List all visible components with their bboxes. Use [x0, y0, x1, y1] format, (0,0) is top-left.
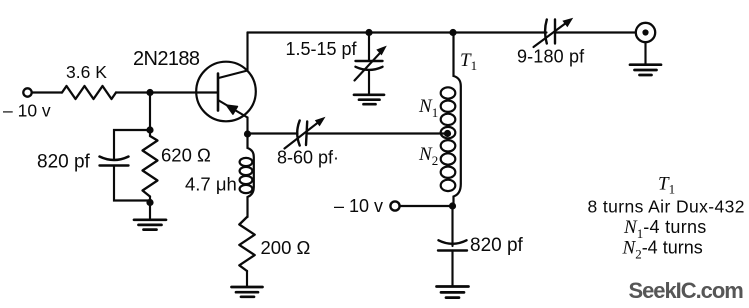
svg-text:T1: T1 — [658, 174, 675, 197]
svg-text:8-60 pf·: 8-60 pf· — [277, 148, 339, 168]
svg-text:4.7 μh: 4.7 μh — [185, 174, 237, 195]
capacitor C 8-60 pf variable — [285, 117, 326, 149]
wire C 1.5-15 to ground 3 — [368, 72, 370, 95]
wire node to transistor base — [150, 91, 217, 93]
svg-text:N2: N2 — [418, 144, 438, 168]
svg-text:820 pf: 820 pf — [470, 235, 524, 256]
node T1 bottom junction — [449, 202, 456, 209]
ground 5 (below output connector) — [630, 65, 661, 75]
wire input to R 3.6K — [32, 91, 62, 93]
node divider top junction — [146, 126, 153, 133]
transistor emitter line with arrow — [219, 101, 248, 118]
inductor L 4.7 uh — [240, 134, 254, 217]
wire node down to divider — [149, 93, 151, 131]
svg-text:3.6 K: 3.6 K — [66, 62, 107, 82]
svg-text:620 Ω: 620 Ω — [161, 145, 211, 166]
node T1 tap junction — [444, 130, 451, 137]
svg-text:200 Ω: 200 Ω — [261, 237, 311, 258]
svg-text:SeekIC.com: SeekIC.com — [629, 278, 744, 303]
wire emitter down to node — [246, 118, 248, 135]
svg-text:T1: T1 — [460, 50, 477, 73]
node emitter junction — [244, 130, 251, 137]
wire collector to top rail — [246, 33, 248, 71]
wire C 820pf to ground 4 — [451, 251, 453, 287]
node rail junction at T1 — [449, 29, 456, 36]
ground 2 (below 200 ohm) — [232, 287, 263, 297]
terminal -10v input — [23, 88, 31, 96]
svg-text:1.5-15 pf: 1.5-15 pf — [286, 39, 358, 59]
transistor Q1 2N2188 body — [196, 62, 256, 122]
capacitor C 1.5-15 pf variable — [355, 46, 387, 81]
svg-text:820 pf: 820 pf — [37, 152, 91, 173]
transformer T1 winding — [441, 33, 461, 207]
wire emitter node to C 8-60 — [248, 132, 298, 134]
node base-divider junction — [146, 89, 153, 96]
wire top rail left segment — [248, 31, 547, 33]
node divider bottom junction — [146, 199, 153, 206]
resistor 200 ohm — [239, 217, 254, 286]
terminal RF output connector — [636, 23, 655, 42]
transistor collector line — [219, 71, 248, 79]
node rail junction at C 1.5-15 — [365, 29, 372, 36]
svg-text:8 turns Air Dux-432: 8 turns Air Dux-432 — [588, 197, 745, 217]
ground 4 (below bottom 820 pf) — [437, 287, 469, 298]
resistor 3.6 K — [62, 86, 116, 99]
wire C 8-60 to T1 tap — [308, 132, 449, 134]
capacitor C 9-180 pf variable — [534, 18, 574, 47]
resistor 620 ohm — [143, 130, 158, 203]
wire output connector to ground 5 — [644, 42, 646, 64]
ground 1 (below 620 ohm) — [134, 220, 166, 230]
svg-text:N2-4 turns: N2-4 turns — [622, 238, 703, 262]
svg-text:2N2188: 2N2188 — [133, 48, 200, 70]
wire bottom of C 820pf branch — [114, 166, 150, 201]
svg-text:– 10 v: – 10 v — [334, 196, 383, 216]
wire R3.6K to base node — [116, 91, 150, 93]
capacitor C 820 pf (left) — [100, 157, 129, 166]
wire rail right segment — [555, 31, 636, 33]
svg-text:N1: N1 — [418, 96, 438, 120]
wire rail to C 1.5-15 — [368, 33, 370, 61]
terminal -10v (bottom) — [390, 201, 399, 210]
svg-text:– 10 v: – 10 v — [3, 101, 51, 121]
wire -10v terminal to T1 bottom — [400, 205, 453, 207]
ground 3 (below 1.5-15 pf) — [354, 95, 384, 104]
svg-text:9-180 pf: 9-180 pf — [517, 47, 585, 67]
capacitor C 820 pf (bottom) — [438, 240, 467, 250]
wire top of C 820pf branch — [114, 130, 150, 160]
wire T1 bottom to C 820pf — [451, 206, 453, 246]
wire to ground 1 — [149, 203, 151, 220]
